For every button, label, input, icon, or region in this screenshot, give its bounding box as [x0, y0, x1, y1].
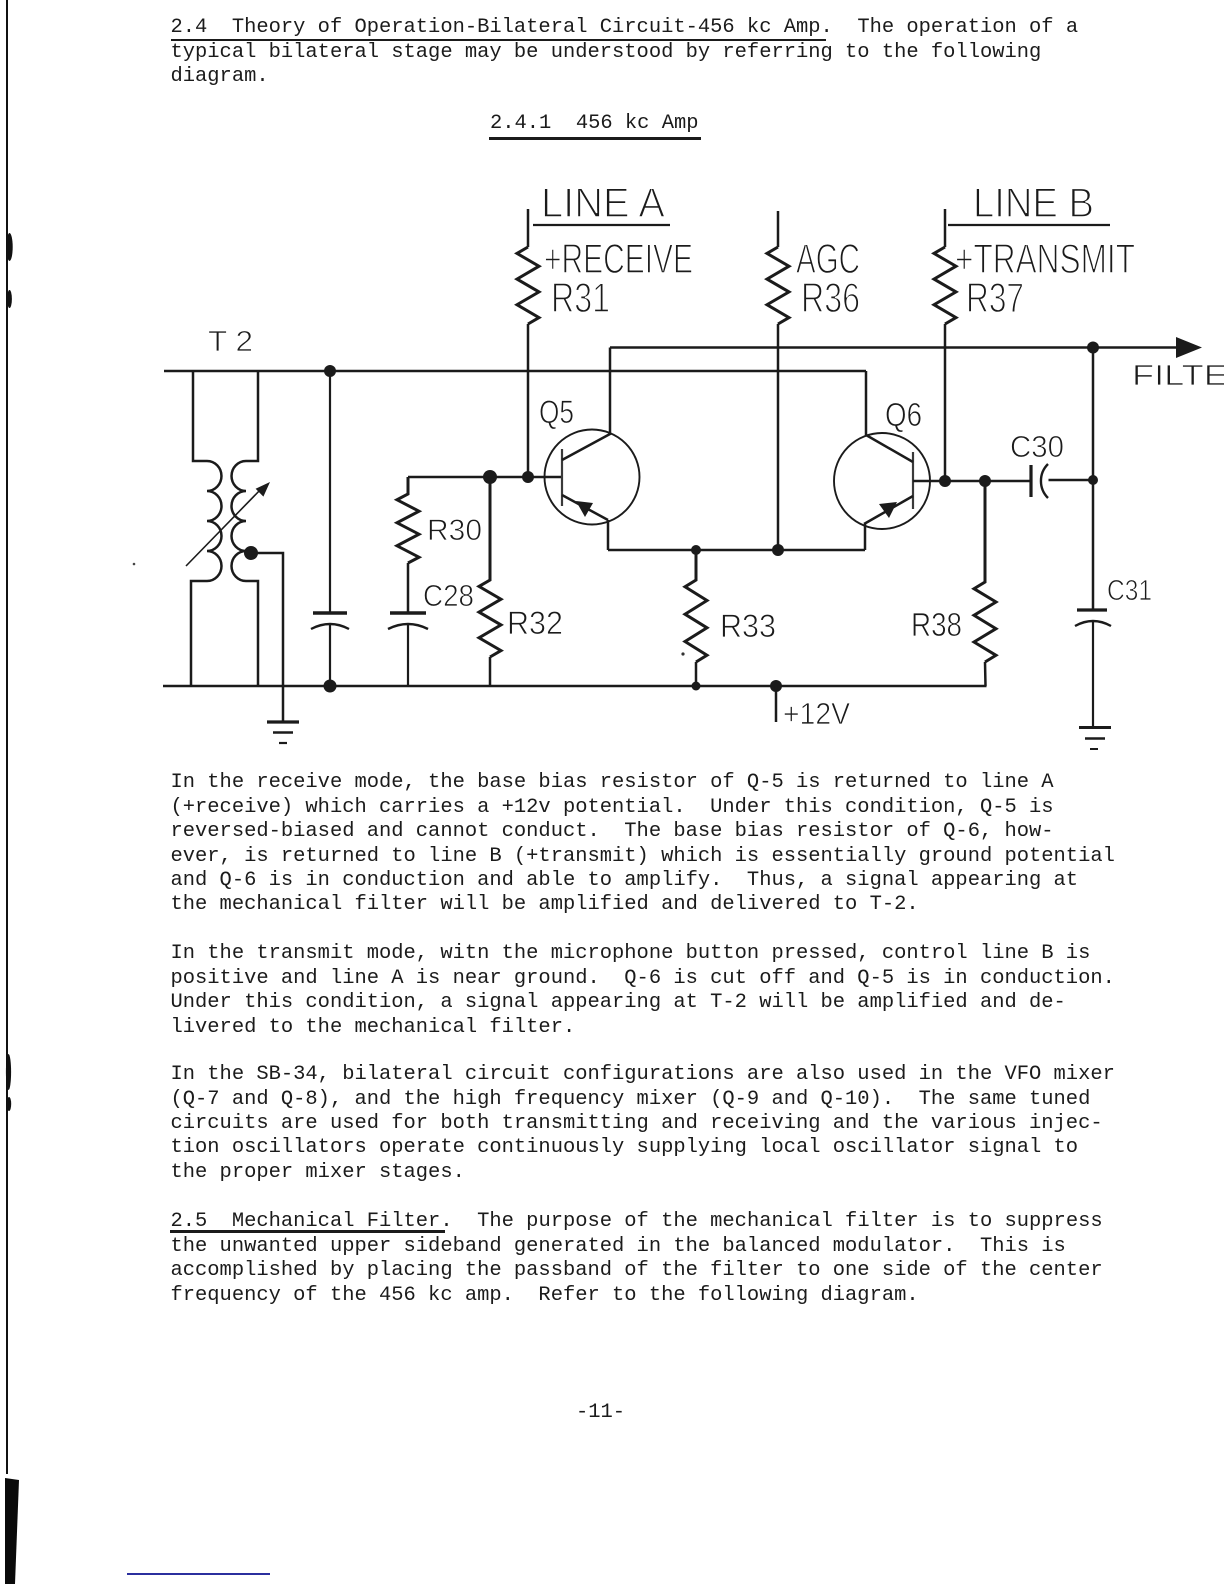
wire: Q5-Q6 common emitter line (y550)	[608, 549, 865, 552]
scan speck	[133, 563, 685, 656]
svg-text:C31: C31	[1107, 575, 1152, 607]
transformer T2 variable core arrow	[186, 482, 270, 566]
svg-text:LINE B: LINE B	[973, 179, 1094, 226]
capacitor C31	[1075, 610, 1111, 727]
svg-text:R38: R38	[911, 606, 962, 643]
label R30	[427, 514, 482, 547]
node: R33 / rail junction	[692, 682, 701, 691]
transistor Q5 body	[545, 430, 640, 525]
ground: T2 tap ground symbol	[267, 722, 299, 743]
transistor Q6 base bar	[912, 452, 914, 509]
label R33	[720, 608, 776, 644]
svg-text:Q6: Q6	[885, 396, 922, 433]
wire: R30 to C28	[407, 563, 410, 612]
wire: LINE B lead	[944, 209, 947, 247]
transformer T2 label	[208, 326, 253, 358]
svg-text:C28: C28	[423, 578, 474, 613]
wire: T2 primary bottom stub	[191, 581, 207, 686]
transformer T2 secondary winding	[232, 461, 247, 581]
resistor R38	[974, 481, 996, 662]
wire: Q6 base line (y481)	[913, 480, 1031, 483]
label AGC	[796, 235, 860, 282]
transistor Q5 base bar	[561, 449, 563, 506]
ground: C31 ground symbol	[1079, 728, 1111, 750]
node: Q6 base / C30-R38 junction	[979, 475, 991, 487]
wire: R37 to Q6 base	[944, 324, 947, 481]
label +RECEIVE	[544, 235, 693, 282]
transistor Q5 label	[539, 394, 574, 430]
capacitor (T2 bypass, unlabeled)	[311, 371, 349, 686]
label +TRANSMIT	[955, 235, 1135, 282]
resistor R36	[767, 247, 789, 324]
svg-text:R37: R37	[966, 274, 1024, 321]
node: R31 / Q5 base junction	[522, 471, 534, 483]
label R36	[801, 274, 860, 321]
wire: AGC lead	[777, 211, 780, 247]
underline: section 2.4 heading	[171, 39, 826, 41]
wire: LINE B underline	[948, 224, 1110, 226]
svg-text:Q5: Q5	[539, 394, 574, 430]
wire: C30 to C31 branch	[1049, 479, 1094, 482]
scan artifact: blue pen line bottom-left	[127, 1573, 270, 1575]
scan artifact: left page edge line	[6, 0, 8, 1474]
resistor R37	[934, 247, 956, 324]
svg-text:LINE A: LINE A	[541, 179, 665, 226]
node: T2 secondary tap	[244, 546, 258, 560]
node: bottom rail / bypass cap junction	[324, 680, 337, 693]
svg-text:C30: C30	[1010, 429, 1064, 464]
wire: bottom +12V rail (y686)	[163, 685, 987, 688]
net label LINE B	[973, 179, 1094, 226]
transistor Q5 emitter	[562, 495, 608, 520]
net label +12V	[783, 696, 850, 731]
node: AGC / emitter line junction	[772, 544, 784, 556]
label C31	[1107, 575, 1152, 607]
net label LINE A	[541, 179, 665, 226]
node: +12V feed on rail	[770, 680, 782, 692]
capacitor C30	[1031, 464, 1048, 498]
svg-text:+12V: +12V	[783, 696, 850, 731]
transformer T2 primary winding	[207, 461, 222, 581]
transistor Q6 collector	[866, 371, 913, 462]
label C28	[423, 578, 474, 613]
transistor Q6 body	[834, 433, 930, 529]
label C30	[1010, 429, 1064, 464]
wire: R38 bottom to rail	[984, 662, 987, 686]
wire: +12V tick	[775, 686, 778, 722]
node: FILTER line to C31 branch junction	[1087, 342, 1099, 354]
wire: T2 tap to ground	[251, 553, 283, 721]
node: emitter line / R33 junction	[691, 545, 701, 555]
label R37	[966, 274, 1024, 321]
svg-text:T 2: T 2	[208, 326, 253, 358]
transistor Q5 collector	[562, 348, 610, 461]
transistor Q6 label	[885, 396, 922, 433]
svg-text:FILTER: FILTER	[1132, 360, 1224, 392]
wire: T2 top rail to Q6 collector (y371)	[164, 370, 866, 373]
node: Q5 base / R32 junction	[483, 470, 497, 484]
wire: FILTER arrowhead	[1176, 337, 1202, 358]
underline: 2.4.1 heading	[489, 137, 701, 139]
capacitor C28	[388, 613, 428, 686]
label R32	[507, 605, 563, 641]
wire: R31 to Q5 base	[527, 324, 530, 477]
wire: FILTER output line (y348) with junction run	[610, 346, 1188, 349]
wire: R33 bottom to rail	[695, 662, 698, 686]
wire: Q6 emitter to common emitter line	[864, 524, 867, 550]
svg-text:R32: R32	[507, 605, 563, 641]
scan artifact: edge blobs	[0, 0, 30, 1584]
transistor Q6 emitter	[864, 496, 913, 524]
wire: Q5 base line (y477)	[408, 476, 562, 479]
wire: FILTER junction down to C31	[1092, 348, 1095, 611]
wire: R32 bottom to rail	[489, 657, 492, 686]
wire: T2 secondary bottom stub	[246, 581, 258, 686]
label R38	[911, 606, 962, 643]
wire: T2 primary top stub	[193, 371, 207, 461]
resistor R30	[397, 477, 419, 563]
wire: R36 to emitter line	[777, 324, 780, 550]
node: C30 / C31 branch junction	[1088, 475, 1098, 485]
net label FILTER	[1132, 360, 1224, 392]
node: R37 / Q6 base junction	[939, 475, 951, 487]
resistor R32	[479, 477, 501, 657]
wire: Q5 emitter to common emitter line	[607, 520, 610, 550]
underline: section 2.5 heading	[170, 1230, 445, 1232]
svg-text:R30: R30	[427, 514, 482, 547]
node: top rail / bypass cap junction	[324, 365, 336, 377]
svg-text:R36: R36	[801, 274, 860, 321]
wire: T2 secondary top stub	[246, 371, 258, 461]
wire: LINE A underline	[533, 224, 670, 226]
scan artifact: bottom-left black wedge	[0, 0, 30, 1584]
resistor R31	[517, 247, 539, 324]
svg-text:R31: R31	[551, 274, 610, 321]
wire: LINE A lead	[527, 209, 530, 247]
resistor R33	[685, 550, 707, 662]
svg-text:R33: R33	[720, 608, 776, 644]
label R31	[551, 274, 610, 321]
